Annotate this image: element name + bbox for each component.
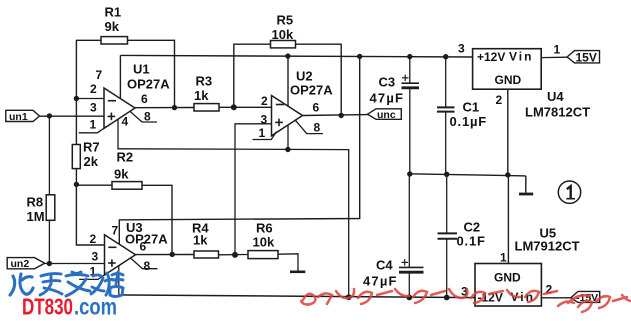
svg-text:unc: unc	[377, 109, 396, 121]
svg-text:1k: 1k	[193, 233, 208, 248]
wire R2 feedback to U3	[76, 185, 172, 254]
svg-text:C4: C4	[376, 258, 393, 273]
terminal un1	[6, 110, 40, 121]
svg-text:1: 1	[500, 251, 507, 265]
svg-text:U2: U2	[296, 69, 313, 84]
svg-text:15V: 15V	[576, 51, 597, 65]
wire U5 pin1 riser	[507, 175, 509, 264]
capacitor C2	[446, 175, 448, 298]
wire R4 to R6	[219, 254, 249, 256]
svg-text:8: 8	[314, 121, 321, 135]
resistor R7	[72, 145, 80, 169]
wire U5 pin2 to -15V	[541, 297, 570, 299]
svg-text:2: 2	[496, 93, 503, 107]
resistor R3	[194, 104, 219, 111]
regulator U4 LM7812CT	[473, 49, 542, 89]
svg-text:3: 3	[90, 101, 97, 115]
svg-text:U4: U4	[547, 89, 564, 104]
svg-text:R8: R8	[27, 195, 44, 210]
svg-text:9k: 9k	[105, 19, 120, 34]
svg-text:1: 1	[554, 43, 561, 57]
svg-text:1: 1	[90, 118, 97, 132]
svg-text:10k: 10k	[272, 27, 294, 42]
wire U2 pin3 riser	[235, 124, 272, 255]
svg-text:8: 8	[144, 259, 151, 273]
resistor R1	[101, 37, 128, 44]
label C3 plus	[402, 75, 409, 81]
svg-text:DT830: DT830	[22, 294, 73, 320]
svg-text:2: 2	[261, 94, 268, 108]
wire U2 pin8 stub	[296, 120, 323, 133]
svg-text:4: 4	[122, 115, 129, 129]
wire U2 pin1 stub	[253, 132, 277, 140]
svg-text:R5: R5	[277, 13, 294, 28]
wire U1 pin7 stub	[119, 55, 121, 98]
capacitor C4	[408, 174, 410, 297]
svg-text:OP27A: OP27A	[290, 83, 333, 98]
svg-text:10k: 10k	[253, 235, 275, 250]
svg-text:R1: R1	[105, 5, 122, 20]
resistor R2	[112, 182, 142, 190]
wire R3 to U2 pin2	[219, 106, 272, 108]
wire GND middle line	[410, 174, 526, 176]
capacitor C3	[409, 57, 411, 175]
svg-text:LM7812CT: LM7812CT	[525, 105, 590, 120]
wire U1 pin1 stub	[79, 126, 107, 132]
svg-text:1k: 1k	[194, 88, 209, 103]
resistor R4	[194, 251, 219, 258]
svg-text:LM7912CT: LM7912CT	[515, 239, 580, 254]
wire U3 pin8 stub	[131, 258, 158, 269]
wire +12V top rail	[120, 55, 472, 57]
resistor R6	[248, 251, 278, 259]
svg-text:R7: R7	[83, 140, 100, 155]
terminal un2	[7, 258, 45, 269]
svg-text:8: 8	[144, 110, 151, 124]
svg-text:R2: R2	[117, 150, 134, 165]
svg-text:U1: U1	[133, 62, 150, 77]
svg-text:OP27A: OP27A	[127, 77, 170, 92]
op-amp U1	[104, 88, 135, 128]
wire U4 pin2 GND drop	[507, 89, 509, 175]
terminal -15V	[571, 291, 600, 302]
resistor R8	[46, 195, 55, 221]
svg-text:GND: GND	[495, 73, 522, 87]
label C4 plus	[402, 259, 409, 265]
wire R7 gain column	[76, 99, 104, 246]
svg-text:1: 1	[259, 126, 266, 140]
svg-text:OP27A: OP27A	[125, 232, 168, 247]
svg-text:Vin: Vin	[509, 50, 533, 64]
op-amp U2	[272, 96, 303, 136]
watermark blue script	[10, 272, 123, 297]
wire U3 output	[136, 254, 195, 256]
wire U2 pin4 drop	[287, 125, 289, 150]
svg-text:9k: 9k	[114, 167, 129, 182]
svg-text:un2: un2	[11, 258, 30, 270]
wire R5 feedback loop	[234, 44, 341, 115]
svg-text:0.1F: 0.1F	[457, 234, 486, 249]
wire +12V to U3 pin7 routing	[119, 56, 359, 244]
wire -12V bottom rail	[119, 295, 475, 298]
svg-text:47µF: 47µF	[370, 91, 405, 106]
svg-text:6: 6	[313, 101, 320, 115]
svg-text:.com: .com	[74, 294, 117, 320]
ground after R6	[290, 270, 305, 273]
svg-text:3: 3	[261, 113, 268, 127]
resistor R5	[271, 41, 296, 48]
wire un1 to U1 pin3	[39, 115, 104, 117]
wire U2 output to unc	[303, 114, 369, 117]
wire U1 pin8 stub	[130, 111, 157, 122]
svg-text:+12V: +12V	[477, 50, 505, 64]
svg-text:R3: R3	[196, 74, 213, 89]
regulator U5 LM7912CT	[475, 264, 541, 307]
terminal 15V	[567, 51, 599, 63]
svg-text:R6: R6	[256, 221, 273, 236]
svg-text:0.1µF: 0.1µF	[450, 114, 488, 129]
svg-text:C3: C3	[379, 75, 396, 90]
svg-text:7: 7	[96, 68, 103, 82]
svg-text:un1: un1	[9, 111, 28, 123]
circled 1 mark	[558, 181, 580, 203]
wire U4 pin1 to 15V	[541, 56, 567, 58]
wire R1 feedback loop	[76, 40, 174, 107]
svg-text:C1: C1	[463, 100, 480, 115]
svg-text:6: 6	[140, 240, 147, 254]
svg-text:2: 2	[90, 82, 97, 96]
wire U2 pin7 stub	[287, 56, 289, 106]
ground symbol top right	[525, 176, 527, 193]
wire U3 pin1 stub	[79, 273, 107, 279]
svg-text:6: 6	[141, 92, 148, 106]
wire U3 pin4 drop	[118, 266, 120, 295]
wire un2 to U3 pin3	[45, 263, 105, 265]
svg-text:C2: C2	[464, 220, 481, 235]
svg-text:7: 7	[112, 224, 119, 238]
svg-text:47µF: 47µF	[363, 274, 398, 289]
svg-text:3: 3	[458, 42, 465, 56]
wire R6 to ground	[278, 254, 298, 271]
svg-text:1M: 1M	[27, 209, 45, 224]
svg-text:2k: 2k	[84, 154, 99, 169]
wire U1 pin2 input	[76, 98, 104, 100]
svg-text:2: 2	[90, 232, 97, 246]
wire U1 pin4 to V-	[118, 119, 349, 297]
svg-text:3: 3	[92, 250, 99, 264]
wire R8 input bias column	[48, 116, 50, 264]
wire U1 output	[135, 107, 194, 109]
svg-text:GND: GND	[494, 271, 521, 285]
watermark red scribble bottom right	[301, 289, 631, 312]
terminal unc	[368, 109, 402, 120]
capacitor C1	[445, 57, 447, 175]
